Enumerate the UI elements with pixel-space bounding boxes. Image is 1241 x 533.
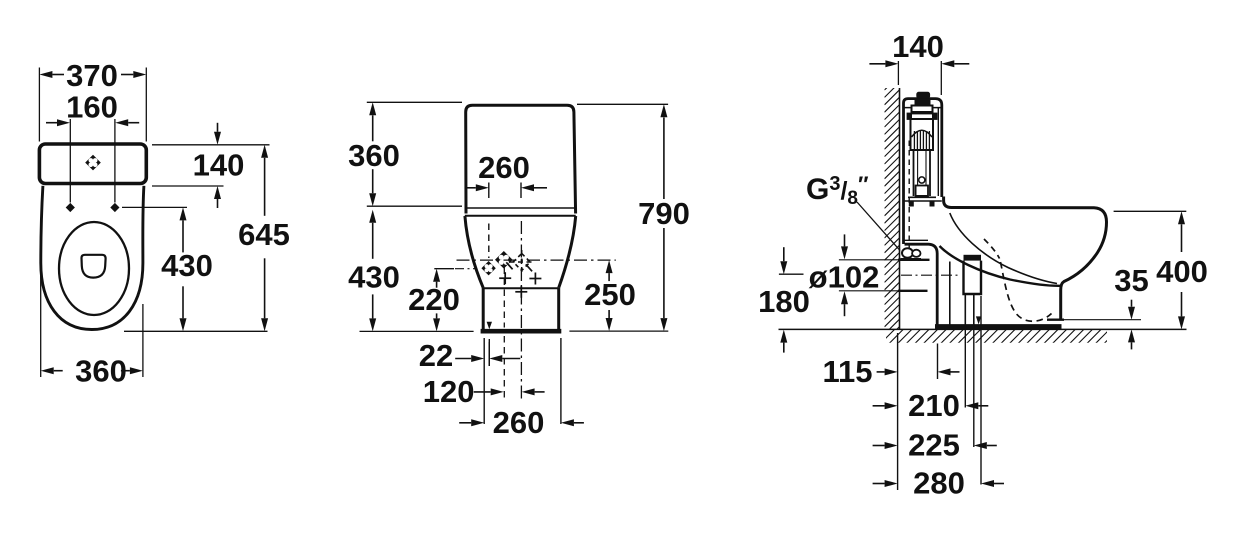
dim 210 arrow right — [965, 402, 978, 409]
supply inlet fitting — [902, 248, 913, 258]
drain position tick (front) — [487, 322, 492, 330]
ext line 370 right — [145, 68, 147, 142]
dim 250 arrow top — [606, 260, 613, 273]
ext line tank right up — [940, 61, 942, 95]
dim 790 arrow bottom — [660, 318, 667, 331]
svg-text:645: 645 — [238, 217, 290, 252]
seat fixing hole left — [66, 203, 75, 212]
outlet connector cap (solid) — [964, 255, 982, 261]
dim 35 arrow bottom — [1128, 329, 1135, 342]
ext line tank top right — [577, 103, 668, 105]
dim 160 arrow left — [57, 119, 70, 126]
ext line base (front right) — [569, 330, 668, 332]
svg-text:280: 280 — [913, 466, 965, 501]
dim 115 arrow right — [938, 368, 951, 375]
svg-text:430: 430 — [348, 260, 400, 295]
svg-text:430: 430 — [161, 248, 213, 283]
tank bottom / pedestal rear — [905, 244, 938, 324]
hidden hole h-axis — [510, 261, 535, 263]
G3/8 leader line — [857, 202, 900, 251]
dim 210 arrow left — [885, 402, 898, 409]
hidden drain offset line upper — [503, 268, 505, 328]
dim 180 arrow bottom — [780, 330, 787, 343]
dim 120 arrow left — [491, 388, 504, 395]
ext line wall face up — [897, 61, 899, 85]
dim 102 arrow top — [841, 246, 848, 259]
ext line 370 left — [38, 68, 40, 142]
pedestal side left — [482, 288, 485, 330]
diagonal hatch dash B — [526, 264, 532, 271]
tank lid hole symbol — [85, 155, 101, 171]
ext line tank top (front) — [367, 101, 462, 103]
dim 140 arrow left (side) — [885, 60, 898, 67]
svg-text:22: 22 — [419, 338, 453, 373]
bowl inner back curve lower — [940, 246, 1061, 286]
dim 430 arrow bottom — [180, 318, 187, 331]
svg-text:250: 250 — [584, 277, 636, 312]
dim 225 arrow left — [885, 442, 898, 449]
pedestal rear inner line — [949, 262, 951, 325]
260 leader dashed left — [488, 224, 490, 259]
dim 430 arrow top (front) — [369, 210, 376, 223]
svg-text:790: 790 — [638, 196, 690, 231]
dim 370 arrow left — [39, 71, 52, 78]
bowl inner back curve upper — [950, 213, 1057, 284]
centre cross mark B — [529, 278, 541, 280]
svg-text:115: 115 — [822, 354, 872, 389]
svg-text:360: 360 — [75, 354, 127, 389]
dim 140 arrow right (side) — [941, 60, 954, 67]
ref line pipe centre — [779, 273, 804, 275]
bowl side right (front) — [559, 216, 576, 288]
dim 260 arrow left — [476, 184, 489, 191]
cistern tank (top view) — [39, 144, 146, 184]
svg-text:180: 180 — [758, 284, 810, 319]
dim 220 arrow bottom — [433, 318, 440, 331]
dim 160 arrow right — [115, 119, 128, 126]
pedestal base (side) thick — [935, 324, 1062, 329]
pedestal fixing hole (visible) right — [495, 251, 513, 269]
svg-text:140: 140 — [193, 148, 245, 183]
dim 360 arrow top — [369, 102, 376, 115]
ext line bowl top right — [1114, 210, 1187, 212]
svg-text:260: 260 — [493, 405, 545, 440]
pedestal side right — [557, 288, 560, 330]
svg-text:160: 160 — [66, 90, 118, 125]
hidden rim channel dashes — [984, 239, 1000, 259]
hidden drain offset line lower — [503, 336, 505, 398]
dim 250 arrow bottom — [606, 318, 613, 331]
ext line wall face below — [897, 333, 899, 490]
dim 360 arrow right — [130, 367, 143, 374]
dim 360 arrow left — [41, 367, 54, 374]
diagonal hatch dash A — [506, 262, 512, 269]
svg-text:120: 120 — [423, 374, 475, 409]
ext line foot underside — [1064, 319, 1141, 321]
centre cross mark C — [515, 291, 527, 293]
dim 115 arrow left — [885, 368, 898, 375]
ext line 360 left — [40, 272, 42, 377]
bowl top and front profile — [944, 197, 1107, 319]
dim 790 arrow top — [660, 104, 667, 117]
cistern tank (side view) — [904, 99, 942, 244]
wall face line — [899, 88, 901, 329]
dim 280 arrow left — [885, 480, 898, 487]
front foot underside — [1047, 319, 1064, 321]
dim 370 arrow right — [133, 71, 146, 78]
outlet pipe right edge — [973, 294, 975, 329]
hidden trap water seal dashes — [1001, 262, 1052, 321]
dim 400 arrow top — [1178, 211, 1185, 224]
dim 35 arrow top — [1128, 307, 1135, 320]
svg-text:370: 370 — [66, 58, 118, 93]
dim 140 arrow bottom — [214, 186, 221, 199]
dim 120 arrow right — [522, 388, 535, 395]
seat opening (inner oval) — [59, 222, 129, 315]
hole centre line right — [114, 119, 116, 203]
ext line 360 right — [142, 304, 144, 377]
hidden hole v-axis — [521, 250, 523, 274]
dim 180 arrow top — [780, 261, 787, 274]
dim 102 arrow bottom — [841, 291, 848, 304]
svg-text:210: 210 — [908, 388, 960, 423]
tank inner wall right — [937, 108, 939, 196]
dim 400 arrow bottom — [1178, 316, 1185, 329]
outlet box — [964, 261, 982, 294]
dim 22 arrow left — [471, 355, 484, 362]
260 leader tick right — [520, 183, 522, 199]
pedestal shoulder line — [483, 287, 559, 289]
ext line base (front left) — [360, 330, 474, 332]
ext line tank bottom — [152, 185, 224, 187]
bowl side left (front) — [465, 216, 483, 288]
ext line tank top — [152, 144, 270, 146]
hidden supply pipe line — [908, 141, 910, 250]
dim 260 arrow right — [561, 419, 574, 426]
outlet pipe left edge — [964, 294, 966, 329]
tank interior bottom — [908, 196, 936, 198]
ext line pedestal rear below — [937, 344, 939, 380]
horizontal trap centreline — [457, 259, 616, 261]
water spot — [82, 255, 106, 278]
tank bottom inner line — [905, 239, 929, 241]
ext line pedestal right below — [560, 338, 562, 424]
fill valve mechanism — [915, 100, 931, 106]
flush button — [916, 92, 930, 99]
svg-text:ø102: ø102 — [809, 260, 880, 295]
dim 360 arrow bottom — [369, 193, 376, 206]
svg-text:360: 360 — [348, 138, 400, 173]
drain ext line below base — [488, 339, 490, 366]
dim 280 arrow right — [981, 480, 994, 487]
horiz outlet pipe top — [898, 259, 930, 261]
horiz outlet pipe bottom — [898, 290, 928, 292]
horiz outlet pipe bottom ext — [839, 290, 898, 292]
dim 260 arrow right — [521, 184, 534, 191]
ext line bowl bottom — [124, 330, 268, 332]
svg-text:400: 400 — [1156, 254, 1208, 289]
svg-text:260: 260 — [478, 150, 530, 185]
dim 22 arrow right — [489, 355, 502, 362]
dim 645 arrow bottom — [261, 318, 268, 331]
svg-text:220: 220 — [408, 282, 460, 317]
floor line — [779, 328, 1187, 330]
tank joint line upper — [465, 207, 576, 209]
tank joint line lower — [465, 215, 576, 217]
dim 260 arrow left — [471, 419, 484, 426]
horiz outlet pipe centreline — [901, 274, 961, 276]
tank lid line — [904, 107, 942, 109]
dim 645 arrow top — [261, 145, 268, 158]
svg-text:225: 225 — [908, 428, 960, 463]
horiz outlet pipe top ext — [839, 259, 898, 261]
dim 430 arrow top — [180, 207, 187, 220]
vertical centreline — [520, 221, 522, 400]
centre cross mark A — [499, 277, 511, 279]
floor hatching — [880, 329, 1119, 344]
dim 220 arrow top — [433, 269, 440, 282]
svg-text:140: 140 — [892, 29, 944, 64]
ref line hole height — [434, 268, 454, 270]
ext line pedestal left below — [483, 338, 485, 424]
dim 225 arrow right — [974, 442, 987, 449]
260 leader tick left — [488, 183, 490, 199]
cistern tank (front view) — [466, 105, 576, 213]
ext line seat holes — [122, 206, 187, 208]
svg-text:35: 35 — [1114, 263, 1148, 298]
ext line outlet box right below — [980, 296, 982, 485]
seat fixing hole right — [110, 203, 119, 212]
hole centre line left — [69, 119, 71, 203]
ext line outlet left below — [964, 329, 966, 407]
pedestal fixing hole (visible) left — [481, 261, 495, 275]
dim 430 arrow bottom (front) — [369, 318, 376, 331]
bowl outline (top view) — [41, 186, 144, 330]
ext line joint (front) — [367, 205, 462, 207]
pedestal fixing hole (hidden, dashed diamond) — [513, 254, 530, 271]
ext line outlet right below — [973, 329, 975, 447]
drain position tick (side) — [976, 316, 981, 324]
dim 140 arrow top — [214, 132, 221, 145]
pedestal base thick line — [481, 329, 562, 334]
